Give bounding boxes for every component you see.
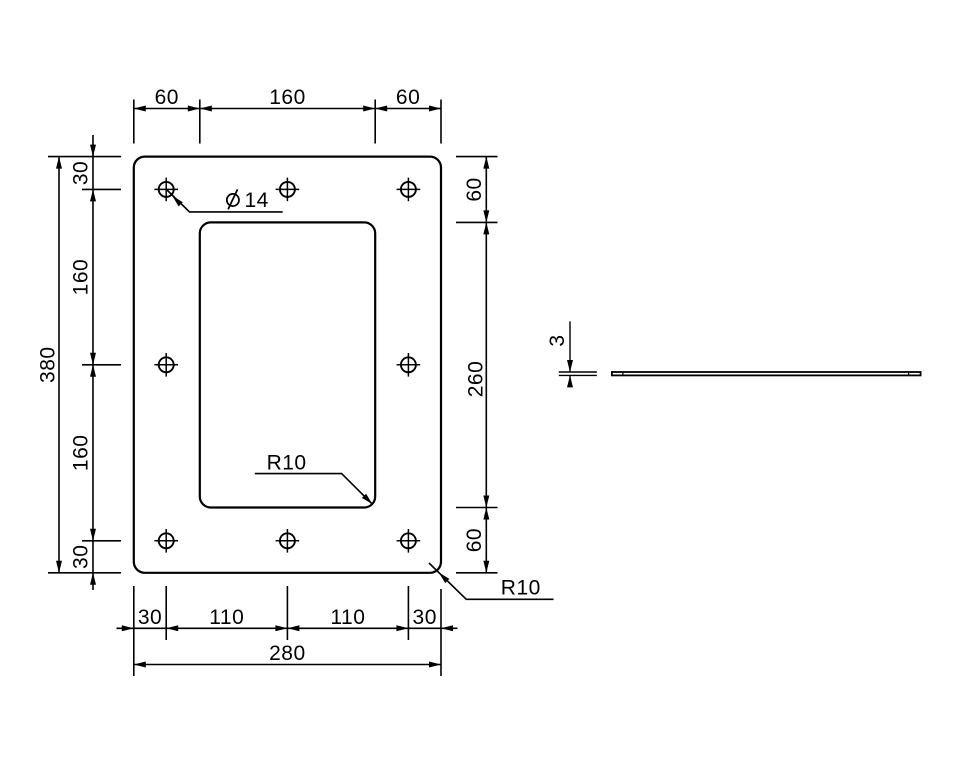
- right ext line at cutout top: [456, 221, 498, 223]
- right chain dimension line: [485, 157, 487, 573]
- side view corner tangent line left: [622, 372, 624, 375]
- hole H5 (d14 with center mark): [397, 353, 421, 377]
- svg-text:110: 110: [330, 606, 365, 629]
- top dim arrows: [134, 106, 441, 112]
- bottom ext line at hole col 1: [165, 586, 167, 640]
- side view corner tangent line right: [908, 372, 910, 375]
- right ext line at cutout bottom: [456, 507, 498, 509]
- svg-text:60: 60: [396, 86, 420, 109]
- hole H1 (d14 with center mark): [154, 178, 178, 202]
- hole diameter leader line: [167, 190, 283, 212]
- svg-text:280: 280: [269, 642, 306, 665]
- svg-text:30: 30: [70, 545, 93, 569]
- svg-text:14: 14: [245, 189, 269, 212]
- 280 dim arrows: [134, 662, 441, 668]
- inner cutout (160x260 rounded rect): [200, 222, 375, 507]
- overall height dimension line 380: [58, 157, 60, 573]
- svg-text:110: 110: [209, 606, 244, 629]
- diameter symbol: [227, 189, 239, 209]
- inner radius arrow: [362, 494, 373, 505]
- thickness ext line top: [559, 371, 597, 373]
- hole H3 (d14 with center mark): [397, 178, 421, 202]
- svg-text:160: 160: [269, 86, 306, 109]
- right chain arrows: [483, 157, 489, 573]
- bottom ext line at plate right: [440, 589, 442, 676]
- hole H8 (d14 with center mark): [397, 529, 421, 553]
- left ext line at plate bottom: [48, 572, 121, 574]
- hole H7 (d14 with center mark): [276, 529, 300, 553]
- svg-text:60: 60: [155, 86, 179, 109]
- hole H2 (d14 with center mark): [276, 178, 300, 202]
- right ext line at plate bottom: [456, 572, 498, 574]
- left chain ext line at bottom hole row: [82, 540, 121, 542]
- top dim extension line at cutout left: [199, 100, 201, 144]
- svg-text:R10: R10: [267, 452, 307, 475]
- hole diameter leader arrow: [172, 196, 183, 207]
- hole H4 (d14 with center mark): [154, 353, 178, 377]
- svg-text:30: 30: [413, 606, 437, 629]
- svg-text:R10: R10: [501, 577, 541, 600]
- thickness dimension line upper tail: [569, 321, 571, 372]
- svg-text:380: 380: [37, 346, 60, 383]
- bottom ext line at plate left: [133, 586, 135, 676]
- bottom ext line at hole col 3: [407, 586, 409, 640]
- left ext line at plate top: [48, 156, 121, 158]
- bottom chain arrows: [122, 625, 453, 631]
- svg-text:260: 260: [465, 361, 488, 398]
- svg-text:3: 3: [546, 334, 569, 346]
- thickness dimension line lower tail: [569, 375, 571, 387]
- overall width dimension line 280: [134, 664, 441, 666]
- svg-text:30: 30: [70, 161, 93, 185]
- svg-text:30: 30: [138, 606, 162, 629]
- svg-text:160: 160: [70, 435, 93, 472]
- svg-text:60: 60: [463, 528, 486, 552]
- outer corner radius leader: [429, 563, 554, 599]
- top dimension line: [134, 108, 441, 110]
- inner corner radius leader: [255, 474, 373, 505]
- left chain arrows: [90, 145, 96, 585]
- left chain ext line at top hole row: [82, 188, 121, 190]
- thickness arrows: [567, 360, 573, 387]
- svg-text:160: 160: [70, 259, 93, 296]
- outer radius arrow: [439, 573, 450, 584]
- svg-text:60: 60: [463, 177, 486, 201]
- 380 dim arrows: [56, 157, 62, 573]
- thickness ext line bottom: [559, 374, 597, 376]
- top dim extension line at cutout right: [374, 100, 376, 144]
- bottom chain dimension line: [117, 627, 458, 629]
- left chain ext line at middle hole row: [82, 364, 121, 366]
- top dim extension line at plate right: [440, 100, 442, 144]
- left chain dimension line: [92, 135, 94, 590]
- right ext line at plate top: [456, 156, 498, 158]
- plate outline (front view, 280x380 rounded rect): [134, 157, 441, 573]
- side view plate outline (3mm thick): [612, 372, 921, 375]
- hole H6 (d14 with center mark): [154, 529, 178, 553]
- bottom ext line at hole col 2: [286, 586, 288, 640]
- top dim extension line at plate left: [133, 100, 135, 144]
